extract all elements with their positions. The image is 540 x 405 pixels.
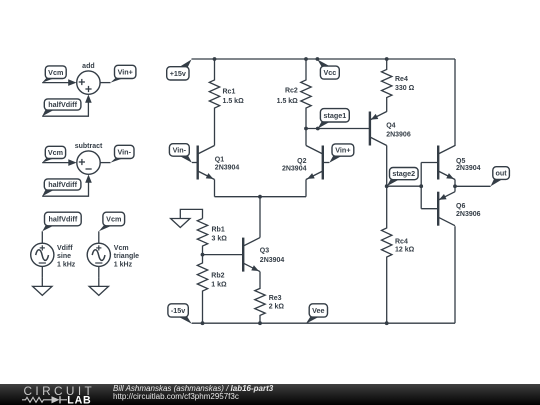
wire Q1 base stub: [192, 162, 198, 164]
transistor Q1 2N3904: [198, 146, 240, 180]
svg-text:stage1: stage1: [323, 111, 346, 120]
svg-text:Re3: Re3: [269, 295, 282, 302]
svg-text:stage2: stage2: [392, 169, 415, 178]
wire Vcm flag to V2: [98, 231, 100, 243]
node stage1 junction: [304, 127, 308, 131]
flag Vin- (Q1 base): [169, 144, 192, 163]
node emitter join: [258, 195, 262, 199]
wire Q1 emitter down: [214, 180, 216, 197]
svg-text:2N3904: 2N3904: [456, 165, 481, 172]
flag stage2: [387, 168, 418, 187]
svg-text:Vcm: Vcm: [114, 245, 129, 252]
wire add output: [100, 82, 110, 84]
ground under V2: [89, 277, 108, 295]
node stage1 flag anchor: [316, 127, 320, 131]
node Re3 bottom junction: [258, 321, 262, 325]
voltage source V2 Vcm triangle 1 kHz: [87, 243, 139, 268]
flag Vin- (subtract output): [111, 145, 135, 162]
wire halfVdiff to add bottom: [42, 102, 88, 117]
resistor Rc4: [382, 186, 415, 323]
wire Q3 collector up: [259, 197, 261, 238]
transistor Q5 2N3904: [438, 146, 480, 180]
resistor Rb1: [197, 219, 227, 255]
svg-text:Rc2: Rc2: [285, 87, 298, 94]
svg-text:Rc4: Rc4: [395, 238, 408, 245]
svg-text:Vee: Vee: [312, 306, 324, 315]
svg-text:halfVdiff: halfVdiff: [48, 100, 77, 109]
flag Vcc: [317, 60, 339, 80]
svg-text:3 kΩ: 3 kΩ: [212, 236, 228, 243]
svg-text:Rb1: Rb1: [212, 227, 225, 234]
svg-text:Vdiff: Vdiff: [57, 245, 73, 252]
svg-text:halfVdiff: halfVdiff: [48, 215, 77, 224]
svg-text:LAB: LAB: [67, 395, 91, 405]
svg-text:2N3904: 2N3904: [260, 257, 285, 264]
wire Q2 emitter down: [305, 180, 307, 197]
wire Q5 base: [421, 162, 438, 164]
ground under V1: [33, 277, 52, 295]
node Rb1-Rb2-base junction: [201, 253, 205, 257]
flag Vcm (subtract input): [42, 146, 65, 162]
node rail-Re4 junction: [385, 57, 389, 61]
svg-text:1.5 kΩ: 1.5 kΩ: [277, 98, 299, 105]
flag halfVdiff (subtract input): [42, 179, 81, 196]
wire Vcm to subtract input: [42, 162, 70, 164]
wire Q6 base: [421, 208, 438, 210]
wire ground to Rb1: [180, 209, 202, 218]
arrowhead add bottom input: [85, 95, 92, 103]
flag Vee: [306, 304, 328, 324]
flag out: [491, 167, 510, 187]
node stage2 right junction: [419, 184, 423, 188]
wire top supply rail: [192, 58, 456, 60]
svg-text:2 kΩ: 2 kΩ: [269, 303, 285, 310]
summing block subtract U-sub: [75, 143, 103, 174]
svg-text:330 Ω: 330 Ω: [395, 85, 415, 92]
flag Vcm (add input): [42, 66, 66, 83]
wire Q3 base: [203, 254, 244, 256]
svg-text:halfVdiff: halfVdiff: [48, 180, 77, 189]
wire Vcm to add input: [42, 82, 70, 84]
wire emitter join: [215, 196, 307, 198]
flag stage1: [318, 109, 350, 129]
node out junction: [453, 184, 457, 188]
svg-text:1 kΩ: 1 kΩ: [211, 282, 227, 289]
wire Q2 base stub: [323, 162, 330, 164]
flag halfVdiff (add input): [42, 99, 81, 116]
wire right column Q5 collector to rail: [454, 59, 456, 146]
resistor Rc1: [209, 59, 244, 146]
wire right column Q6 collector to rail: [454, 226, 456, 323]
svg-text:Q1: Q1: [215, 157, 224, 164]
footer bar: [0, 384, 540, 405]
svg-text:Q4: Q4: [386, 123, 395, 130]
summing block add U-add: [77, 63, 100, 94]
wire Q4 collector down to stage2: [386, 146, 388, 187]
resistor Re4: [382, 59, 415, 112]
svg-text:Re4: Re4: [395, 76, 408, 83]
arrowhead subtract bottom input: [85, 175, 92, 183]
transistor Q6 2N3906: [438, 192, 480, 226]
svg-text:1.5 kΩ: 1.5 kΩ: [223, 98, 245, 105]
flag Vin+ (add output): [111, 65, 136, 82]
svg-text:Vcm: Vcm: [48, 68, 63, 77]
wire out: [455, 185, 491, 187]
wire stage1 to Q4 base: [306, 128, 370, 130]
resistor Re3: [255, 272, 285, 324]
node Rb2 bottom junction: [201, 321, 205, 325]
svg-text:12 kΩ: 12 kΩ: [395, 247, 415, 254]
wire Q6 emitter stub: [454, 186, 456, 191]
transistor Q2 2N3904: [282, 146, 323, 180]
svg-text:-15v: -15v: [171, 306, 185, 315]
svg-text:Vcc: Vcc: [323, 68, 336, 77]
svg-text:subtract: subtract: [75, 143, 103, 150]
resistor Rb2: [197, 255, 227, 324]
arrowhead subtract left input: [68, 159, 76, 166]
resistor Rc2: [277, 59, 312, 146]
svg-text:1 kHz: 1 kHz: [57, 261, 76, 268]
ground above Rb1: [171, 218, 190, 228]
flag -15v supply: [168, 304, 192, 324]
wire V1 to ground: [41, 266, 43, 277]
svg-text:Q6: Q6: [456, 203, 465, 210]
svg-text:Vcm: Vcm: [106, 215, 121, 224]
wire halfVdiff flag to V1: [41, 231, 43, 243]
svg-text:2N3904: 2N3904: [282, 166, 307, 173]
flag +15v supply: [167, 60, 192, 81]
transistor Q3 2N3904: [243, 238, 284, 272]
arrowhead add left input: [68, 79, 76, 86]
node Vcc junction: [316, 57, 320, 61]
node Rc4 bottom junction: [385, 321, 389, 325]
node rail-Rc1 junction: [213, 57, 217, 61]
svg-text:Rc1: Rc1: [223, 89, 236, 96]
wire Q5 emitter stub: [454, 180, 456, 187]
svg-text:2N3906: 2N3906: [386, 131, 411, 138]
svg-text:2N3906: 2N3906: [456, 211, 481, 218]
svg-text:Vin-: Vin-: [118, 148, 132, 157]
svg-text:2N3904: 2N3904: [215, 165, 240, 172]
svg-text:triangle: triangle: [114, 253, 139, 260]
wire bottom supply rail: [192, 322, 455, 324]
svg-text:add: add: [82, 63, 94, 70]
svg-text:out: out: [496, 169, 508, 178]
footer text: [113, 383, 533, 385]
svg-text:1 kHz: 1 kHz: [114, 261, 133, 268]
voltage source V1 Vdiff sine 1 kHz: [31, 243, 76, 268]
flag halfVdiff (source V1): [42, 212, 81, 231]
svg-text:sine: sine: [57, 253, 71, 260]
flag Vin+ (Q2 base): [329, 144, 354, 163]
node stage2 junction: [385, 184, 389, 188]
CircuitLab logo: [0, 384, 110, 405]
svg-text:+15v: +15v: [170, 69, 186, 78]
wire subtract output: [100, 162, 110, 164]
flag Vcm (source V2): [99, 212, 125, 231]
transistor Q4 2N3906: [370, 112, 411, 146]
wire stage2 to output bases: [387, 185, 422, 187]
svg-text:Vin+: Vin+: [335, 146, 350, 155]
node rail-Rc2 junction: [304, 57, 308, 61]
svg-text:Rb2: Rb2: [211, 273, 224, 280]
wire halfVdiff to subtract bottom: [42, 182, 88, 197]
svg-text:Q2: Q2: [297, 158, 306, 165]
svg-text:Vin+: Vin+: [118, 68, 133, 77]
wire output bases column: [420, 163, 422, 209]
wire V2 to ground: [98, 266, 100, 277]
svg-text:Q3: Q3: [260, 248, 269, 255]
svg-text:Vin-: Vin-: [173, 146, 187, 155]
svg-text:Vcm: Vcm: [48, 148, 63, 157]
